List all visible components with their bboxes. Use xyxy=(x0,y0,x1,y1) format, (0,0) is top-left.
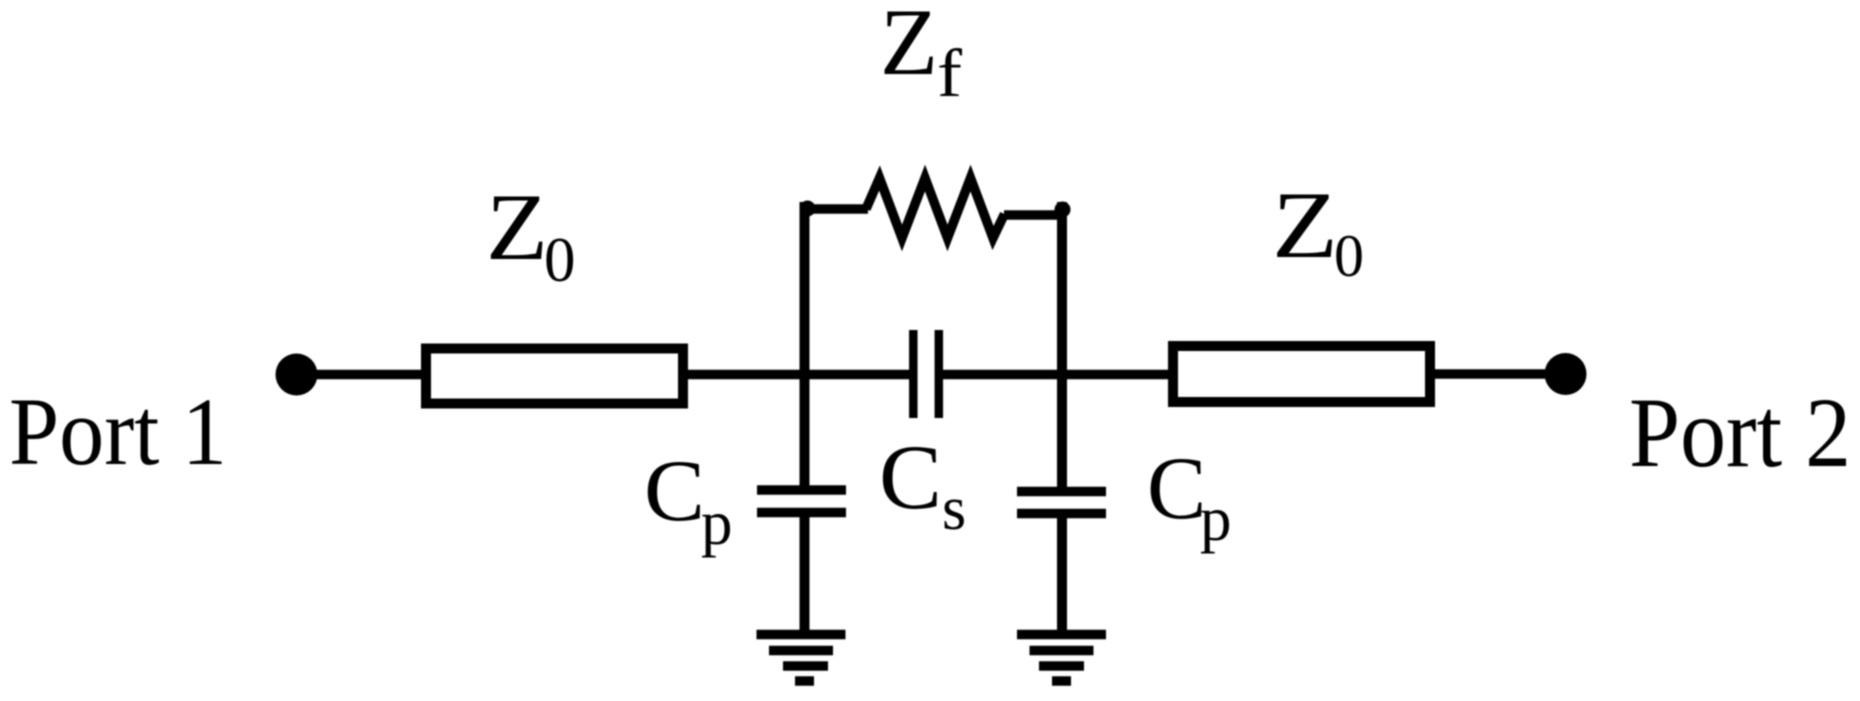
node 1 vertical wire (junction to Zf loop and Cp) xyxy=(800,202,810,490)
label Cs xyxy=(879,426,966,543)
capacitor Cp right: bottom plate xyxy=(1017,509,1106,519)
wire Zf loop top left xyxy=(800,204,868,214)
svg-text:C: C xyxy=(1147,440,1206,538)
capacitor Cs left plate xyxy=(909,330,918,418)
transmission line Z0 (left) xyxy=(426,349,683,404)
ground (right): bar 3 xyxy=(1039,661,1084,671)
capacitor Cp left: bottom plate xyxy=(757,508,846,518)
ground (left): bar 3 xyxy=(783,661,828,671)
svg-text:C: C xyxy=(879,426,942,528)
wire Cs to node 2 and Z0 right xyxy=(943,370,1173,380)
node 2 vertical wire (junction to Zf loop and Cp) xyxy=(1057,202,1067,490)
svg-text:s: s xyxy=(942,475,966,543)
port 2 terminal dot xyxy=(1545,353,1587,395)
label Cp (left) xyxy=(644,443,733,558)
svg-text:C: C xyxy=(644,443,705,540)
junction dot left (node 1 top) xyxy=(800,201,816,217)
wire port1 to Z0 left xyxy=(296,370,426,380)
wire Cp left to ground xyxy=(800,512,810,634)
svg-text:p: p xyxy=(701,488,733,558)
label Z0 (left) xyxy=(486,174,576,295)
junction dot right (node 2 top) xyxy=(1055,202,1071,218)
svg-text:f: f xyxy=(937,35,962,111)
ground (left): bar 4 xyxy=(795,676,814,686)
capacitor Cp right: top plate xyxy=(1017,487,1106,497)
svg-text:0: 0 xyxy=(544,225,576,295)
label Cp (right) xyxy=(1147,440,1232,554)
port 1 terminal dot xyxy=(276,354,318,396)
label Zf xyxy=(880,0,962,111)
wire Z0 right to port 2 xyxy=(1430,369,1566,379)
label Z0 (right) xyxy=(1272,172,1364,289)
ground (right): bar 4 xyxy=(1052,676,1071,686)
svg-text:Z: Z xyxy=(880,0,938,95)
transmission line Z0 (right) xyxy=(1173,346,1430,402)
wire Cp right to ground xyxy=(1057,513,1067,634)
svg-text:Z: Z xyxy=(486,174,548,280)
ground (right): bar 2 xyxy=(1030,646,1094,656)
svg-text:0: 0 xyxy=(1334,223,1364,289)
svg-text:Z: Z xyxy=(1272,172,1338,278)
svg-text:p: p xyxy=(1200,484,1232,554)
svg-text:Port 1: Port 1 xyxy=(9,378,227,485)
capacitor Cp left: top plate xyxy=(757,485,846,495)
svg-text:Port 2: Port 2 xyxy=(1629,377,1851,488)
ground (left): bar 1 xyxy=(757,630,846,640)
wire Z0 left to node 1 and Cs xyxy=(688,370,910,380)
resistor Zf zigzag xyxy=(866,178,1005,238)
ground (right): bar 1 xyxy=(1017,630,1106,640)
wire Zf loop top right xyxy=(1004,210,1066,220)
capacitor Cs right plate xyxy=(935,330,944,418)
ground (left): bar 2 xyxy=(769,646,833,656)
